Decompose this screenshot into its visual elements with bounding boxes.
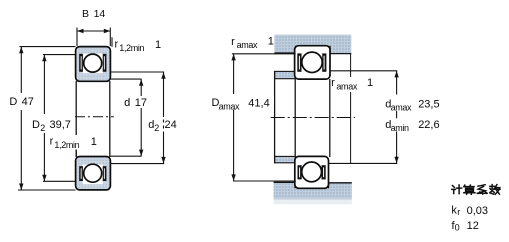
dimension D2: leaders: [43, 55, 76, 182]
svg-text:r: r: [331, 77, 335, 89]
housing top bore profile outline: [274, 46, 351, 54]
dimension damax/damin: line with arrows: [394, 71, 398, 163]
bearing bottom section (right view): [295, 156, 329, 188]
svg-text:amax: amax: [336, 82, 357, 92]
dimension Damax: line with arrows: [231, 54, 235, 181]
label d 17: [123, 96, 149, 109]
svg-text:amax: amax: [237, 40, 258, 50]
svg-text:amax: amax: [391, 103, 412, 113]
seal left (top section): [79, 54, 83, 72]
label d amin 22,6: [385, 119, 439, 133]
shaft end face: [274, 71, 276, 163]
label D amax 41,4: [211, 96, 275, 112]
label D2 39,7: [32, 119, 71, 133]
svg-text:2: 2: [40, 123, 45, 133]
label r1,2min 1 (top): [115, 38, 162, 52]
label r amax 1 (middle): [331, 77, 373, 92]
svg-text:24: 24: [165, 119, 177, 131]
label r amax 1 (top): [231, 35, 274, 50]
dimension damax/damin leaders: [329, 71, 398, 164]
label d2 24: [148, 119, 177, 134]
bearing side silhouette right: [109, 81, 111, 157]
bearing side silhouette left: [75, 81, 77, 157]
svg-text:39,7: 39,7: [50, 119, 71, 131]
svg-text:14: 14: [94, 8, 106, 20]
svg-text:D: D: [9, 96, 17, 108]
r1,2min tick bottom: [75, 150, 77, 156]
bearing outer+inner ring bottom section: [76, 157, 111, 190]
seal right (top section): [103, 54, 107, 72]
计: [452, 185, 462, 194]
svg-text:1,2min: 1,2min: [119, 43, 144, 53]
bearing outer+inner ring top section: [76, 47, 111, 82]
svg-text:23,5: 23,5: [418, 98, 439, 110]
shaft abutment ring (bottom): [275, 156, 296, 162]
svg-text:d: d: [124, 97, 130, 109]
label d amax 23,5: [385, 98, 439, 112]
dimension d: leaders: [110, 79, 141, 156]
svg-text:22,6: 22,6: [418, 119, 439, 131]
svg-text:amax: amax: [219, 101, 240, 111]
svg-text:1: 1: [155, 39, 161, 51]
seal right (right view, bottom): [322, 165, 326, 179]
svg-text:r: r: [457, 207, 460, 217]
svg-text:2: 2: [154, 123, 159, 133]
svg-text:17: 17: [135, 97, 147, 109]
axis centerline right view: [271, 117, 355, 119]
svg-text:41,4: 41,4: [248, 97, 269, 109]
seal left (right view, top): [297, 53, 301, 71]
housing bottom block: [274, 182, 352, 198]
dimension D: line with arrows: [19, 47, 23, 190]
seal right (right view, top): [322, 53, 326, 71]
housing top band: [274, 35, 351, 54]
ball (top section): [84, 54, 102, 72]
label f0 12: [452, 220, 479, 233]
seal left (right view, bottom): [298, 165, 302, 179]
系: [477, 185, 487, 194]
bearing side silhouette right view left: [294, 79, 296, 157]
svg-text:amin: amin: [391, 123, 409, 133]
svg-text:0,03: 0,03: [467, 205, 488, 217]
svg-text:r: r: [115, 38, 119, 50]
shaft abutment ring (top): [275, 71, 296, 78]
dimension B: extension lines: [77, 28, 110, 47]
svg-text:0: 0: [455, 223, 460, 233]
label kr 0,03: [451, 205, 488, 218]
bearing top section (right view): [295, 46, 330, 79]
housing bottom fringe: [274, 198, 352, 200]
bearing side silhouette right view right: [329, 79, 331, 157]
label r1,2min 1 (bottom): [48, 135, 97, 150]
ball (bottom section): [84, 164, 102, 182]
svg-text:D: D: [32, 119, 40, 131]
dimension D: leaders: [18, 47, 76, 190]
seal right (bottom section): [103, 166, 107, 181]
dimension D2: line with arrows: [42, 55, 46, 182]
svg-text:1: 1: [91, 136, 97, 148]
dimension Damax: leaders: [232, 54, 296, 181]
dimension d2: line with arrows: [161, 72, 165, 163]
r1,2min tick top: [111, 37, 113, 47]
ball (right view, top): [302, 52, 322, 72]
dimension B: line: [77, 29, 110, 33]
svg-text:r: r: [50, 136, 54, 148]
svg-text:1: 1: [367, 77, 373, 89]
svg-text:B: B: [82, 8, 89, 20]
axis centerline left view: [75, 116, 114, 118]
svg-text:1,2min: 1,2min: [54, 140, 79, 150]
svg-text:r: r: [231, 36, 235, 48]
housing bottom bore profile outline: [274, 182, 352, 188]
算: [464, 185, 475, 194]
dimension d: line with arrows: [139, 79, 143, 156]
svg-text:47: 47: [22, 96, 34, 108]
ball (right view, bottom): [302, 162, 322, 182]
dimension d2: leaders: [110, 72, 164, 164]
seal left (bottom section): [79, 166, 83, 181]
label 计算系数 (calculation factors, drawn strokes): [452, 185, 500, 195]
数: [490, 185, 500, 195]
svg-text:1: 1: [268, 35, 274, 47]
svg-text:12: 12: [467, 220, 479, 232]
extension line housing corner (r amax mid): [350, 54, 352, 164]
